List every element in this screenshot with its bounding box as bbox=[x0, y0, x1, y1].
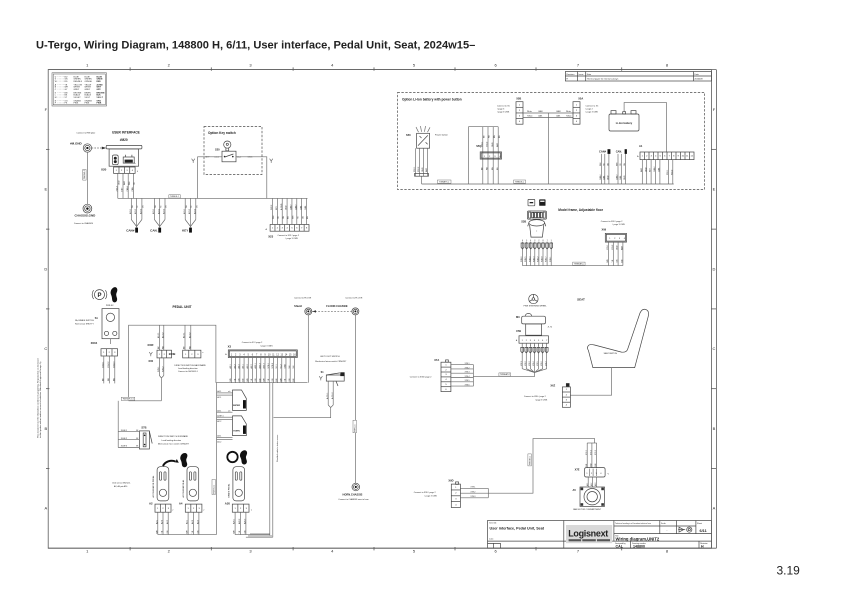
svg-text:8: 8 bbox=[542, 240, 543, 242]
svg-text:X00F.2: X00F.2 bbox=[121, 438, 128, 440]
svg-text:GND: GND bbox=[119, 180, 121, 185]
svg-text:TWGND-C: TWGND-C bbox=[84, 169, 86, 179]
svg-text:n/a: n/a bbox=[228, 410, 230, 412]
wires CAN terminators to bus bbox=[599, 154, 626, 184]
svg-text:S3B.3: S3B.3 bbox=[533, 256, 535, 262]
svg-text:GND: GND bbox=[617, 245, 619, 250]
svg-text:S7B.2: S7B.2 bbox=[162, 366, 164, 372]
wires A1 to bus bbox=[640, 160, 674, 184]
svg-text:WH: WH bbox=[264, 378, 266, 382]
svg-text:Mechanical micro switch CRN029: Mechanical micro switch CRN0297 bbox=[158, 443, 190, 446]
svg-text:CAN#: CAN# bbox=[294, 204, 297, 210]
svg-text:S3B.8: S3B.8 bbox=[542, 256, 544, 262]
svg-text:GND: GND bbox=[492, 142, 494, 147]
wire key switch right leg bbox=[236, 157, 273, 199]
drawing frame border bbox=[48, 70, 716, 549]
svg-text:FLOOR.CHASSIE: FLOOR.CHASSIE bbox=[326, 304, 348, 308]
svg-text:PINK: PINK bbox=[97, 103, 102, 105]
svg-text:USER INTERFACE: USER INTERFACE bbox=[112, 130, 140, 134]
svg-text:A1: A1 bbox=[639, 144, 643, 148]
svg-text:WH: WH bbox=[273, 215, 275, 219]
svg-text:C: C bbox=[713, 346, 716, 351]
svg-text:Option Key switch: Option Key switch bbox=[208, 131, 236, 135]
svg-text:S7B: S7B bbox=[141, 426, 146, 430]
svg-text:CAN.: CAN. bbox=[602, 175, 605, 180]
connector X6Z bbox=[524, 383, 571, 407]
svg-text:A20.2: A20.2 bbox=[258, 362, 261, 368]
svg-text:X09: X09 bbox=[602, 227, 607, 231]
svg-text:CAN.: CAN. bbox=[619, 175, 622, 180]
wire key switch left leg bbox=[192, 157, 222, 199]
svg-text:White: White bbox=[527, 110, 532, 113]
frame zone numbers and ticks bbox=[44, 63, 716, 554]
svg-text:CAN.: CAN. bbox=[304, 205, 307, 210]
svg-text:GND: GND bbox=[285, 364, 287, 369]
svg-text:X09.2: X09.2 bbox=[612, 244, 614, 250]
svg-text:GRY: GRY bbox=[97, 89, 102, 91]
svg-text:4: 4 bbox=[530, 240, 531, 242]
svg-text:A20.2: A20.2 bbox=[157, 209, 160, 214]
svg-text:A20.1: A20.1 bbox=[233, 518, 236, 524]
svg-text:TWSEAT-C: TWSEAT-C bbox=[574, 262, 585, 265]
wire riser CAN to bus bbox=[547, 113, 549, 184]
svg-text:#M.GND: #M.GND bbox=[70, 141, 83, 145]
wires S1 to trunk bbox=[274, 381, 334, 418]
ground #M.GND bbox=[70, 141, 92, 152]
connector X20 bbox=[101, 167, 139, 173]
svg-text:CAN#: CAN# bbox=[599, 150, 607, 154]
wires X004 down bbox=[102, 356, 115, 383]
wire colour legend table bbox=[52, 73, 107, 106]
svg-text:X7E.1: X7E.1 bbox=[471, 487, 476, 489]
svg-text:/ page 2: / page 2 bbox=[586, 109, 594, 111]
svg-text:ORNGE: ORNGE bbox=[85, 81, 93, 83]
svg-text:S7B.2: S7B.2 bbox=[272, 362, 274, 368]
svg-text:U-Tergo, Wiring Diagram, 14880: U-Tergo, Wiring Diagram, 148800 H, 6/11,… bbox=[36, 40, 475, 52]
wire shield dashes between grounds bbox=[312, 310, 352, 312]
svg-text:Revision: Revision bbox=[566, 74, 575, 76]
svg-text:CAN#: CAN# bbox=[126, 229, 134, 233]
svg-text:SEAT SWITCH: SEAT SWITCH bbox=[604, 352, 618, 355]
svg-text:A4: A4 bbox=[179, 501, 183, 505]
svg-text:5: 5 bbox=[526, 240, 527, 242]
svg-text:A20.3: A20.3 bbox=[244, 518, 247, 524]
svg-text:A6.X2: A6.X2 bbox=[188, 332, 191, 338]
terminator CAN# battery bbox=[599, 149, 610, 154]
svg-text:BRAKE PEDAL: BRAKE PEDAL bbox=[228, 483, 231, 498]
bus wire model frame TWSEAT-C bbox=[523, 262, 623, 266]
svg-text:X7E.2: X7E.2 bbox=[591, 450, 593, 455]
page number bbox=[777, 564, 801, 578]
svg-text:/ page 3: / page 3 bbox=[497, 109, 505, 111]
svg-text:6: 6 bbox=[522, 240, 523, 242]
connector X7E bbox=[575, 467, 610, 477]
svg-text:to third parties without writt: to third parties without written consent… bbox=[39, 360, 42, 438]
svg-text:Connect to X6U / page 2: Connect to X6U / page 2 bbox=[524, 395, 547, 398]
svg-text:M3: M3 bbox=[516, 315, 520, 319]
svg-text:VIOLET: VIOLET bbox=[74, 97, 82, 99]
svg-text:A20.3: A20.3 bbox=[263, 362, 266, 368]
wire battery to A1 bbox=[624, 103, 666, 152]
svg-text:Item title: Item title bbox=[489, 522, 496, 525]
svg-text:A2.2: A2.2 bbox=[217, 420, 221, 423]
svg-text:Connect to X9D / page 2: Connect to X9D / page 2 bbox=[414, 491, 437, 494]
socket S3B bbox=[521, 211, 546, 224]
svg-text:S50: S50 bbox=[406, 133, 411, 137]
svg-text:Option Li-Ion battery with pow: Option Li-Ion battery with power button bbox=[402, 98, 462, 102]
svg-text:TWBUS-C: TWBUS-C bbox=[515, 181, 525, 183]
power button S50 bbox=[406, 126, 449, 148]
svg-text:Load leading direction: Load leading direction bbox=[178, 367, 198, 370]
svg-text:X09.1: X09.1 bbox=[607, 244, 609, 250]
svg-text:C: C bbox=[44, 346, 47, 351]
svg-text:/ page 3 CMS: / page 3 CMS bbox=[535, 399, 548, 401]
svg-text:WH: WH bbox=[129, 181, 131, 185]
svg-text:X7A: X7A bbox=[434, 358, 439, 362]
svg-text:ACCELERATOR A4: ACCELERATOR A4 bbox=[182, 479, 185, 498]
connector X00F bbox=[147, 343, 171, 363]
svg-text:X5B: X5B bbox=[516, 97, 521, 101]
wires into X7E bbox=[586, 443, 597, 468]
svg-text:S50.2: S50.2 bbox=[418, 166, 420, 172]
accelerator pedal A2 bbox=[149, 467, 169, 506]
svg-text:CAN#: CAN# bbox=[290, 204, 293, 210]
icon foot A2 bbox=[180, 453, 187, 467]
svg-text:CAN.: CAN. bbox=[131, 186, 134, 191]
direction switch S7B bbox=[118, 401, 190, 449]
connector X23 bbox=[265, 225, 309, 241]
svg-text:X004.3: X004.3 bbox=[113, 361, 115, 368]
svg-text:A20.1: A20.1 bbox=[129, 209, 132, 214]
svg-text:Connect to X5: Connect to X5 bbox=[497, 105, 511, 108]
svg-text:X20: X20 bbox=[101, 167, 107, 171]
wire floor chassis to horn chassis bbox=[353, 315, 356, 483]
model frame section label bbox=[558, 208, 603, 212]
seat outline bbox=[587, 309, 648, 367]
svg-text:S7B.1: S7B.1 bbox=[268, 362, 270, 368]
svg-text:GND: GND bbox=[608, 175, 610, 180]
shielded trunk cable bbox=[270, 383, 279, 538]
svg-text:Connect to X7A / page 2: Connect to X7A / page 2 bbox=[410, 376, 433, 379]
svg-text:A.CU.2: A.CU.2 bbox=[331, 392, 334, 399]
key switch S20 bbox=[205, 141, 253, 162]
svg-text:X7E: X7E bbox=[575, 467, 580, 471]
svg-text:A20.1: A20.1 bbox=[254, 362, 257, 368]
svg-text:X7E.3: X7E.3 bbox=[595, 450, 597, 455]
wires X5B to X5A CAN pair bbox=[523, 110, 573, 118]
svg-text:Connect to CHASSIS near to hor: Connect to CHASSIS near to horn bbox=[338, 498, 368, 501]
svg-text:WH: WH bbox=[247, 378, 249, 382]
svg-text:CAN#: CAN# bbox=[599, 174, 602, 180]
svg-text:-: - bbox=[667, 529, 668, 532]
svg-text:X7B.3: X7B.3 bbox=[465, 372, 470, 374]
svg-text:/ page 3 CMS: / page 3 CMS bbox=[586, 112, 599, 114]
icon arrow arc A2 bbox=[163, 459, 179, 466]
connector A20 plug bbox=[232, 504, 253, 512]
svg-text:LEFT FOOT SWITCH: LEFT FOOT SWITCH bbox=[320, 356, 340, 358]
svg-text:WH: WH bbox=[617, 162, 619, 166]
svg-text:E: E bbox=[713, 187, 716, 192]
svg-text:FAN MOTOR COMPARTMENT: FAN MOTOR COMPARTMENT bbox=[573, 508, 602, 511]
svg-text:Model frame, Adjustable floor: Model frame, Adjustable floor bbox=[558, 208, 603, 212]
svg-text:WH: WH bbox=[293, 215, 295, 219]
wires to X00F X00B bbox=[157, 325, 191, 350]
connector X9D bbox=[414, 478, 461, 507]
brake pedal A20 bbox=[225, 467, 245, 506]
wires S50 to bus bbox=[414, 148, 428, 184]
svg-text:3: 3 bbox=[534, 240, 535, 242]
svg-text:PINK: PINK bbox=[85, 103, 90, 105]
svg-text:A20.1: A20.1 bbox=[152, 209, 155, 214]
svg-text:Connect to K23 / page 2: Connect to K23 / page 2 bbox=[278, 234, 300, 237]
svg-text:A.INT.1: A.INT.1 bbox=[217, 414, 223, 417]
svg-text:/ page 3 CMS: / page 3 CMS bbox=[613, 224, 626, 226]
svg-text:3.19: 3.19 bbox=[777, 564, 801, 578]
svg-text:Connect to FLOOR: Connect to FLOOR bbox=[294, 296, 312, 299]
svg-text:X23.2: X23.2 bbox=[116, 185, 118, 191]
pedal unit section label bbox=[173, 305, 192, 309]
svg-text:S50.1: S50.1 bbox=[667, 169, 669, 175]
svg-text:X7B.2: X7B.2 bbox=[465, 367, 470, 369]
svg-text:X23: X23 bbox=[268, 234, 273, 238]
svg-text:CAN.: CAN. bbox=[538, 115, 543, 118]
svg-text:S3B.4: S3B.4 bbox=[529, 256, 531, 262]
wires X7A stubs bbox=[451, 363, 474, 387]
svg-text:A20: A20 bbox=[225, 501, 231, 505]
wires A2 down bbox=[155, 512, 168, 534]
terminator CAN. battery bbox=[616, 149, 627, 154]
svg-text:PWR STEERING WHEEL: PWR STEERING WHEEL bbox=[524, 306, 548, 308]
svg-text:X7B.6: X7B.6 bbox=[465, 385, 470, 387]
svg-text:CHASSIS.GND: CHASSIS.GND bbox=[75, 214, 97, 218]
svg-text:X7E.1: X7E.1 bbox=[586, 450, 588, 455]
left margin rotated copyright text bbox=[37, 357, 43, 438]
connector A1 bbox=[637, 144, 694, 160]
svg-text:PWR-NC: PWR-NC bbox=[106, 305, 114, 307]
svg-text:148800: 148800 bbox=[633, 545, 645, 549]
svg-text:/ page 3 CMS: / page 3 CMS bbox=[286, 238, 299, 240]
svg-text:Issue: Issue bbox=[579, 74, 585, 76]
svg-text:Mechanical micro switch CRN029: Mechanical micro switch CRN0297 bbox=[315, 360, 347, 363]
icon tilt switch up bbox=[528, 199, 535, 205]
accelerator pedal A4 bbox=[179, 467, 199, 506]
svg-text:SEAT: SEAT bbox=[577, 297, 585, 301]
svg-text:Connect to HMI plate: Connect to HMI plate bbox=[76, 132, 96, 135]
svg-text:VIO.LT: VIO.LT bbox=[97, 97, 104, 99]
svg-text:B: B bbox=[44, 426, 47, 431]
svg-text:X7E.3: X7E.3 bbox=[471, 496, 476, 498]
switch 5A brake switch bbox=[75, 305, 119, 344]
svg-text:Sheet: Sheet bbox=[697, 522, 702, 525]
svg-text:Thermal paper for internal aut: Thermal paper for internal autosys bbox=[587, 78, 619, 81]
connector A4 plug bbox=[185, 504, 205, 512]
svg-text:X7B.7: X7B.7 bbox=[545, 361, 547, 366]
svg-text:A2: A2 bbox=[149, 501, 153, 505]
connector A2 plug bbox=[155, 504, 174, 512]
wire seat to X6Z bbox=[570, 368, 611, 396]
svg-text:E: E bbox=[44, 187, 47, 192]
switch S1 left foot switch bbox=[315, 356, 347, 386]
svg-text:X7E.2: X7E.2 bbox=[471, 492, 476, 494]
terminator KEY bbox=[182, 198, 198, 232]
svg-text:2024008: 2024008 bbox=[694, 79, 703, 81]
svg-text:WH: WH bbox=[234, 530, 236, 534]
terminator CAN. bbox=[150, 198, 167, 232]
svg-text:PINK: PINK bbox=[74, 103, 79, 105]
svg-text:5A, BRAKE SWITCH: 5A, BRAKE SWITCH bbox=[75, 319, 94, 322]
connector X5B bbox=[497, 97, 523, 125]
svg-text:CAN.: CAN. bbox=[556, 115, 561, 118]
svg-text:TWX9D-C: TWX9D-C bbox=[529, 455, 531, 465]
svg-text:A3.1: A3.1 bbox=[217, 435, 221, 438]
svg-text:KEY: KEY bbox=[276, 205, 278, 210]
ground HORN.CHASSIS bbox=[338, 483, 368, 501]
pedal bus wires bottom bbox=[158, 534, 273, 537]
display unit #M20 bbox=[106, 138, 142, 166]
svg-text:TWX3-C1: TWX3-C1 bbox=[213, 484, 215, 494]
svg-text:GND: GND bbox=[286, 205, 288, 210]
svg-text:Power button: Power button bbox=[435, 133, 449, 136]
svg-text:KEY: KEY bbox=[650, 167, 652, 172]
svg-text:KEY: KEY bbox=[182, 229, 188, 233]
svg-text:GREY: GREY bbox=[74, 89, 80, 91]
svg-text:2: 2 bbox=[538, 240, 539, 242]
svg-text:CAN.: CAN. bbox=[150, 229, 157, 233]
svg-text:TWX00F-C1: TWX00F-C1 bbox=[122, 399, 134, 401]
svg-text:A6.X1: A6.X1 bbox=[183, 332, 186, 338]
icon foot 1 bbox=[111, 287, 118, 302]
user interface section label bbox=[76, 130, 139, 134]
svg-text:7: 7 bbox=[547, 240, 548, 242]
svg-text:DIRECTION SWITCH FORWARD: DIRECTION SWITCH FORWARD bbox=[158, 435, 189, 438]
svg-text:X7B.2: X7B.2 bbox=[525, 361, 527, 366]
svg-text:S7B.1: S7B.1 bbox=[158, 366, 160, 372]
svg-text:CAN#: CAN# bbox=[653, 166, 656, 172]
svg-text:WH: WH bbox=[230, 378, 232, 382]
logisnext logo bbox=[566, 525, 612, 543]
svg-text:WH: WH bbox=[600, 162, 602, 166]
revision table bbox=[565, 72, 711, 82]
fan A5 bbox=[572, 487, 604, 511]
icon tilt switch down bbox=[539, 199, 545, 205]
connector X50 with wires bbox=[476, 127, 501, 184]
ground shield bbox=[294, 296, 312, 315]
svg-text:GND: GND bbox=[624, 175, 626, 180]
svg-text:Connect to FLOOR: Connect to FLOOR bbox=[345, 296, 363, 299]
svg-text:WH: WH bbox=[156, 530, 158, 534]
connector X5A bbox=[573, 97, 599, 125]
svg-text:A.GND: A.GND bbox=[280, 203, 283, 210]
ground CHASSIS.GND bbox=[74, 204, 96, 225]
svg-text:Logisnext: Logisnext bbox=[568, 529, 608, 539]
svg-text:Technical overlay is of Locati: Technical overlay is of Location technic… bbox=[615, 522, 651, 525]
svg-text:X50.2: X50.2 bbox=[487, 141, 489, 147]
wires X7E to fan bbox=[586, 477, 597, 487]
svg-text:WH: WH bbox=[607, 259, 609, 263]
svg-text:RED/BLK: RED/BLK bbox=[74, 81, 83, 83]
connector X09 bbox=[601, 220, 627, 242]
svg-text:/ page 3 CMS: / page 3 CMS bbox=[497, 112, 510, 114]
svg-text:A2.1: A2.1 bbox=[217, 396, 221, 399]
icon brake ring bbox=[227, 452, 237, 462]
svg-text:GND: GND bbox=[645, 167, 647, 172]
svg-text:Yellow: Yellow bbox=[566, 116, 572, 118]
svg-text:X7B.5: X7B.5 bbox=[465, 380, 470, 382]
svg-text:X50.1: X50.1 bbox=[481, 141, 483, 147]
svg-text:CAN#: CAN# bbox=[616, 174, 619, 180]
svg-text:A: A bbox=[713, 506, 716, 511]
svg-text:S50.2: S50.2 bbox=[671, 169, 673, 175]
indicator flag BUZZER bbox=[217, 390, 247, 412]
svg-text:X7B.3: X7B.3 bbox=[529, 361, 531, 366]
svg-text:X004.2: X004.2 bbox=[108, 361, 110, 368]
connector X004 bbox=[91, 341, 118, 356]
svg-text:A5.X1: A5.X1 bbox=[157, 332, 160, 338]
bus wire TWBUS-C horizontal bbox=[118, 195, 308, 199]
svg-text:TWS1-C: TWS1-C bbox=[354, 424, 356, 432]
svg-text:X00F.3: X00F.3 bbox=[121, 446, 128, 448]
svg-text:#M20: #M20 bbox=[120, 138, 128, 142]
svg-text:HORN: HORN bbox=[233, 431, 240, 433]
motor M3 bbox=[516, 313, 552, 335]
svg-text:CAL: CAL bbox=[616, 545, 624, 549]
connector X7A bbox=[410, 358, 451, 392]
wire #M.GND to M20 dashed with arrow bbox=[92, 147, 107, 150]
svg-text:X7B.4: X7B.4 bbox=[533, 361, 535, 366]
svg-text:Connect to K3 / page 2: Connect to K3 / page 2 bbox=[242, 341, 263, 344]
svg-text:User interface, Pedal Unit, Se: User interface, Pedal Unit, Seat bbox=[490, 527, 545, 531]
wires X20 to bus bbox=[116, 173, 136, 198]
wire #M.GND to CHASSIS.GND bbox=[83, 152, 88, 204]
svg-text:GND: GND bbox=[422, 167, 424, 172]
svg-text:GREY: GREY bbox=[85, 89, 91, 91]
indicator flag HORN bbox=[217, 414, 247, 443]
svg-text:KEY: KEY bbox=[122, 187, 124, 192]
svg-text:1: 1 bbox=[551, 240, 552, 242]
svg-text:TWBATT-C: TWBATT-C bbox=[439, 180, 450, 183]
svg-text:A20.2: A20.2 bbox=[238, 518, 241, 524]
page title bbox=[36, 40, 475, 52]
svg-text:Red sensor SHUTTY: Red sensor SHUTTY bbox=[75, 323, 94, 325]
svg-text:X00B: X00B bbox=[169, 352, 176, 356]
svg-text:5A: 5A bbox=[95, 317, 98, 320]
svg-text:A3.1: A3.1 bbox=[217, 409, 221, 412]
svg-text:X7B.4: X7B.4 bbox=[465, 376, 470, 378]
svg-text:Load leading direction: Load leading direction bbox=[162, 439, 182, 442]
svg-text:Li-Ion battery: Li-Ion battery bbox=[616, 121, 633, 125]
svg-text:S3B.2: S3B.2 bbox=[538, 256, 540, 262]
svg-text:X00: X00 bbox=[148, 359, 153, 363]
svg-text:WH: WH bbox=[187, 530, 189, 534]
seat section label bbox=[577, 297, 585, 301]
svg-text:P: P bbox=[97, 293, 101, 299]
svg-text:D: D bbox=[44, 266, 47, 271]
wire riser to X50 bbox=[469, 127, 499, 184]
svg-text:A20.2: A20.2 bbox=[134, 209, 137, 214]
connector X7B bbox=[516, 329, 548, 343]
svg-text:Yellow: Yellow bbox=[527, 116, 533, 118]
svg-text:Wiring diagram,UNIT2: Wiring diagram,UNIT2 bbox=[616, 536, 660, 541]
ground floor chassis bbox=[326, 296, 363, 315]
svg-text:S20.2: S20.2 bbox=[271, 204, 273, 210]
svg-text:/ page 3 CMS: / page 3 CMS bbox=[260, 345, 273, 347]
option key switch dashed box bbox=[204, 127, 262, 175]
svg-text:ACCELERATOR PEDAL: ACCELERATOR PEDAL bbox=[152, 475, 155, 498]
title block bbox=[488, 521, 712, 549]
bus wire TWBATT-C bbox=[422, 180, 674, 184]
svg-text:6/11: 6/11 bbox=[700, 529, 707, 533]
seat base bucket bbox=[528, 220, 546, 238]
